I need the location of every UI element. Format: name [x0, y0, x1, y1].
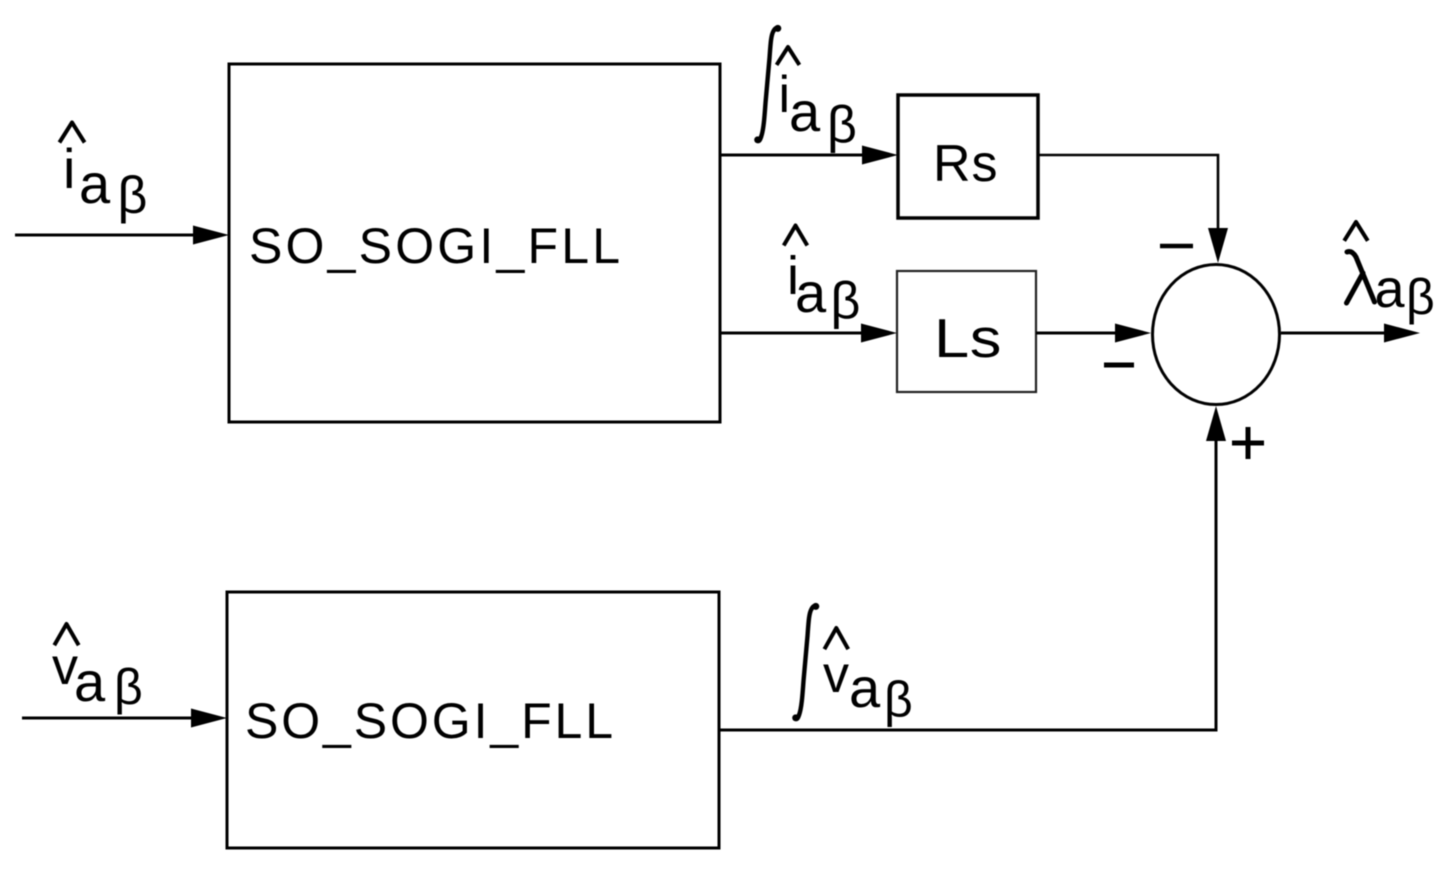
svg-text:Ls: Ls	[934, 307, 1002, 369]
svg-text:β: β	[114, 659, 143, 715]
svg-text:a: a	[789, 80, 821, 143]
svg-text:a: a	[849, 656, 881, 719]
svg-text:β: β	[118, 167, 148, 225]
svg-text:β: β	[831, 272, 861, 330]
svg-text:a: a	[79, 152, 111, 215]
svg-text:Rs: Rs	[933, 135, 999, 193]
svg-text:a: a	[795, 261, 827, 324]
svg-text:SO_SOGI_FLL: SO_SOGI_FLL	[245, 693, 616, 749]
svg-text:i: i	[63, 137, 75, 200]
svg-text:a: a	[1375, 259, 1406, 319]
svg-text:a: a	[74, 650, 106, 713]
svg-text:β: β	[1406, 269, 1435, 325]
svg-text:β: β	[884, 672, 913, 728]
svg-text:SO_SOGI_FLL: SO_SOGI_FLL	[249, 218, 623, 274]
svg-text:β: β	[827, 96, 857, 154]
svg-text:v: v	[823, 646, 849, 704]
